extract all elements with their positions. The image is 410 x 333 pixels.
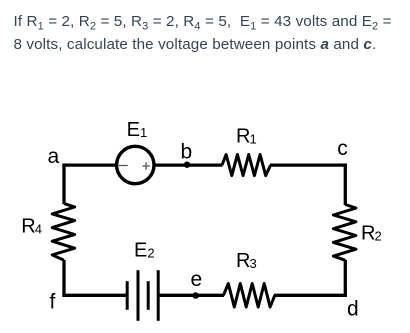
- E1 plus terminal mark: [142, 162, 149, 169]
- svg-text:R4: R4: [21, 216, 42, 238]
- svg-text:c: c: [337, 137, 348, 160]
- source E1: [117, 146, 154, 183]
- svg-text:R2: R2: [361, 223, 382, 245]
- battery E2 plate 2 tall: [137, 270, 140, 321]
- wire R1 to c: [270, 163, 347, 166]
- resistor R2: [333, 205, 356, 261]
- wire a down to R4: [62, 164, 65, 205]
- battery E2 plate 1 short: [126, 281, 129, 310]
- wire R4 down to f: [62, 260, 65, 297]
- resistor R1: [222, 155, 271, 176]
- wire E1 to R1: [155, 163, 223, 166]
- wire a to E1: [62, 163, 116, 166]
- battery E2 plate 3 short: [147, 281, 150, 310]
- resistor R3: [224, 284, 275, 308]
- resistor R4: [52, 203, 74, 260]
- svg-text:E2: E2: [134, 240, 155, 262]
- svg-text:a: a: [48, 145, 60, 168]
- battery E2 plate 4 tall: [157, 270, 160, 321]
- svg-text:d: d: [347, 298, 359, 321]
- svg-text:b: b: [181, 141, 193, 164]
- svg-text:f: f: [50, 291, 56, 314]
- wire c down to R2: [344, 164, 347, 206]
- node b junction dot: [184, 162, 190, 168]
- wire E2 to R3: [158, 294, 224, 297]
- node e junction dot: [192, 292, 199, 299]
- E1 minus terminal mark: [119, 165, 128, 167]
- svg-text:R3: R3: [236, 250, 257, 272]
- wire R2 down to d: [344, 260, 347, 297]
- svg-text:E1: E1: [127, 119, 148, 141]
- wire R3 to d: [274, 294, 347, 297]
- svg-text:R1: R1: [236, 126, 257, 148]
- svg-text:e: e: [191, 268, 203, 291]
- wire f to E2: [62, 294, 127, 297]
